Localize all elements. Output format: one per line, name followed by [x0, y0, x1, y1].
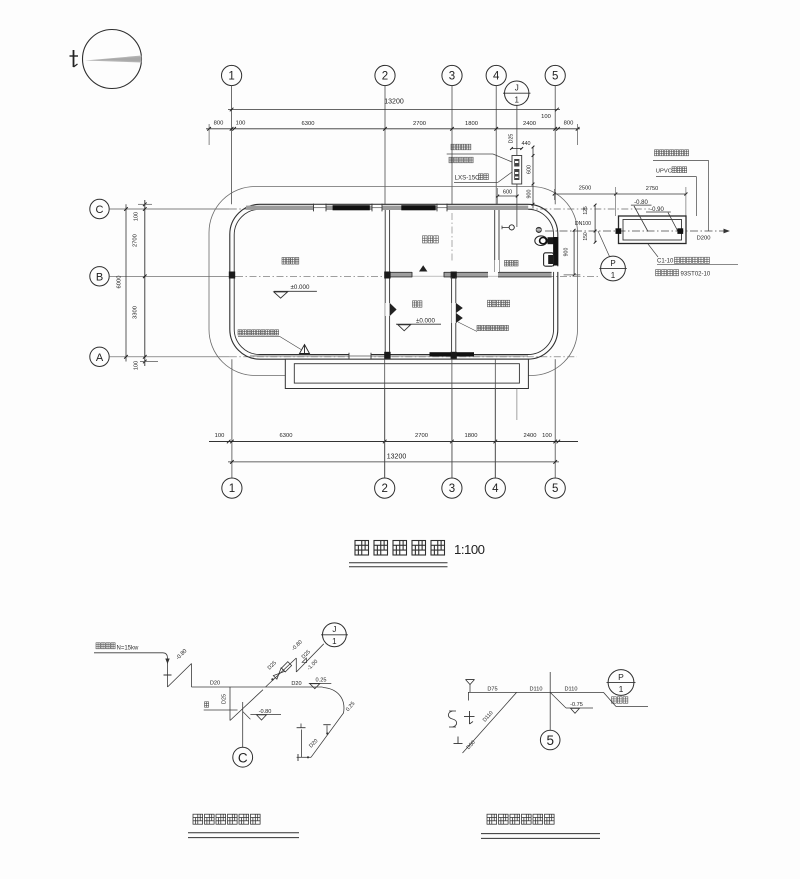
- svg-text:13200: 13200: [387, 453, 407, 460]
- svg-text:2500: 2500: [579, 186, 591, 192]
- partition wall grid2 vertical: [384, 210, 386, 354]
- toilet floor drain 2: [536, 227, 541, 232]
- drain: diagonal branch down-left: [463, 692, 517, 753]
- supply: main horizontal pipe: [192, 686, 323, 688]
- svg-text:-0.80: -0.80: [259, 709, 272, 715]
- wash basin: [544, 253, 554, 266]
- symbol 5 circle drain: [540, 730, 560, 750]
- svg-text:C: C: [96, 204, 104, 216]
- svg-text:5: 5: [546, 733, 554, 748]
- svg-text:4: 4: [492, 483, 499, 495]
- svg-text:100: 100: [134, 361, 140, 370]
- drain: main horizontal line: [468, 691, 604, 693]
- svg-text:D25: D25: [509, 134, 515, 144]
- building inner wall face: [234, 209, 553, 354]
- door leaves grid3: [456, 303, 463, 313]
- dimension row 13200 top: [228, 109, 560, 111]
- door leaf room1 top: [419, 265, 427, 271]
- svg-text:5: 5: [552, 483, 558, 495]
- drain pipe D200 centerline: [545, 230, 727, 232]
- svg-text:2400: 2400: [523, 121, 536, 127]
- outer site boundary rounded outline: [209, 187, 578, 376]
- svg-text:C: C: [238, 750, 248, 765]
- svg-text:1: 1: [229, 483, 235, 495]
- drain: lower tick: [457, 737, 459, 744]
- svg-text:J: J: [332, 625, 336, 634]
- svg-text:2700: 2700: [413, 121, 426, 127]
- north arrow symbol: [83, 30, 142, 89]
- svg-text:100: 100: [541, 114, 551, 120]
- room label transformer room: [282, 258, 299, 265]
- svg-text:UPVC: UPVC: [656, 169, 672, 175]
- bottom wall gray line: [250, 355, 528, 357]
- drain: outfall label: [612, 697, 628, 703]
- dim 2500: [554, 193, 615, 195]
- svg-text:D110: D110: [530, 687, 543, 693]
- supply: riser diagonal: [168, 664, 192, 688]
- svg-text:D20: D20: [210, 681, 220, 687]
- toilet floor drain 1: [509, 225, 514, 230]
- sump box inner: [623, 220, 682, 241]
- partition wall grid4 vertical (toilet): [494, 210, 496, 272]
- dim 900 vertical: [573, 230, 575, 275]
- grid verticals through pit: [384, 359, 386, 478]
- pit inner rectangle: [294, 364, 519, 383]
- drain: S-trap symbol: [448, 711, 456, 727]
- dim column right of meter: [532, 147, 534, 208]
- svg-text:100: 100: [134, 212, 140, 221]
- grid line B: [110, 275, 236, 277]
- drain: center stack vertical: [549, 672, 551, 730]
- title drainage diagram: [487, 814, 554, 824]
- dimension row 13200 bottom: [228, 461, 559, 463]
- svg-text:A: A: [96, 352, 104, 364]
- svg-text:93ST02-10: 93ST02-10: [681, 271, 711, 277]
- svg-text:P: P: [618, 672, 624, 682]
- svg-text:125: 125: [583, 206, 589, 215]
- supply: branch to C: [229, 687, 231, 721]
- middle wall horizontal: [390, 272, 552, 277]
- svg-text:1: 1: [611, 271, 616, 280]
- top wall gray band: [246, 206, 528, 210]
- svg-text:1: 1: [514, 96, 519, 105]
- room label hall: [413, 301, 422, 307]
- room label duty room: [423, 236, 439, 243]
- svg-text:13200: 13200: [384, 99, 404, 106]
- left small dims of sump: [594, 205, 596, 242]
- symbol J/1 circle: [505, 81, 529, 105]
- black wall segment right: [553, 237, 558, 266]
- svg-text:D75: D75: [487, 687, 497, 693]
- grid circles bottom 1-5: [222, 478, 242, 498]
- svg-text:150: 150: [583, 232, 589, 241]
- svg-text:LXS-15C: LXS-15C: [455, 174, 481, 181]
- svg-text:±0.000: ±0.000: [291, 284, 310, 291]
- svg-text:6300: 6300: [302, 121, 315, 127]
- svg-text:N=15kw: N=15kw: [117, 646, 140, 652]
- symbol P/1 circle drain: [608, 670, 634, 696]
- interior grid3 centerline in room: [451, 213, 453, 261]
- svg-text:440: 440: [522, 141, 531, 147]
- svg-text:100: 100: [542, 433, 552, 439]
- svg-text:800: 800: [214, 121, 224, 127]
- supply: inlet leader: [94, 652, 163, 654]
- svg-text:1: 1: [228, 71, 234, 83]
- wall pier blobs: [229, 272, 235, 279]
- dimension row segments top: [206, 128, 580, 130]
- water meter box: [512, 156, 522, 185]
- sump box outer: [619, 216, 687, 244]
- grid circles left A B C: [90, 199, 109, 218]
- svg-text:J: J: [515, 84, 519, 93]
- note text bottom left with flag: [238, 330, 279, 335]
- svg-text:2750: 2750: [646, 186, 658, 192]
- symbol P/1 circle plan: [601, 256, 626, 281]
- dimension column 6000 left: [125, 204, 127, 361]
- partition wall grid3 vertical: [451, 277, 453, 353]
- title first floor plan: [355, 541, 445, 556]
- title supply diagram: [193, 814, 260, 824]
- svg-text:±0.000: ±0.000: [416, 317, 435, 324]
- pit outer rectangle: [285, 359, 528, 388]
- supply pipe vertical from J: [516, 106, 518, 156]
- svg-text:100: 100: [215, 433, 225, 439]
- svg-text:3300: 3300: [133, 306, 139, 319]
- bottom wall black bar: [430, 352, 475, 356]
- svg-text:100: 100: [236, 120, 246, 126]
- svg-text:900: 900: [564, 248, 570, 257]
- svg-text:6300: 6300: [280, 433, 293, 439]
- svg-text:C1-10: C1-10: [657, 259, 674, 265]
- svg-text:2: 2: [382, 71, 388, 83]
- svg-text:D110: D110: [565, 687, 578, 693]
- top wall window gaps: [314, 205, 327, 211]
- svg-text:-0.75: -0.75: [570, 702, 583, 708]
- dimension row segments bottom: [209, 441, 578, 443]
- svg-text:600: 600: [503, 189, 512, 195]
- svg-text:600: 600: [526, 165, 532, 174]
- WC toilet bowl: [535, 236, 547, 246]
- supply: right descending branch: [311, 688, 344, 758]
- drain: outfall right: [604, 692, 617, 706]
- svg-text:2700: 2700: [415, 433, 428, 439]
- dim 600 above wall: [498, 195, 518, 197]
- svg-text:900: 900: [526, 190, 532, 199]
- bottom wall door gap: [349, 353, 371, 359]
- svg-text:1:100: 1:100: [454, 542, 485, 557]
- svg-text:D200: D200: [697, 236, 711, 242]
- room label toilet: [505, 260, 519, 266]
- symbol C circle: [233, 747, 253, 767]
- door leaf grid2: [390, 303, 397, 316]
- label rainwater discharge pipe: [655, 150, 689, 156]
- supply: elevation -0.80 center: [243, 712, 251, 720]
- valve on branch: [273, 668, 284, 679]
- building outer wall face: [230, 204, 558, 359]
- svg-text:1800: 1800: [465, 121, 478, 127]
- svg-text:1: 1: [332, 637, 337, 646]
- supply: branch to J/1: [266, 658, 297, 687]
- grid circles top 1-5: [222, 65, 242, 85]
- room label pump control room: [488, 300, 510, 307]
- grid line A: [110, 356, 230, 358]
- dimension column segments left: [144, 200, 146, 366]
- note text pump base: [477, 325, 508, 330]
- drain: cross symbol: [469, 711, 471, 724]
- svg-text:2700: 2700: [133, 234, 139, 247]
- svg-text:6000: 6000: [117, 276, 123, 289]
- svg-text:3: 3: [449, 483, 455, 495]
- supply: lower faucets: [297, 756, 311, 758]
- svg-text:1: 1: [619, 684, 624, 694]
- svg-text:800: 800: [564, 121, 574, 127]
- svg-text:2: 2: [381, 483, 387, 495]
- dim 440: [512, 148, 522, 150]
- svg-text:4: 4: [493, 71, 500, 83]
- sump funnel leaders: [634, 206, 648, 232]
- drain: floor drain funnel: [466, 679, 475, 681]
- dim 2750: [616, 193, 686, 195]
- svg-text:D20: D20: [291, 681, 301, 687]
- leader text lines water inlet: [451, 144, 471, 150]
- svg-text:2400: 2400: [524, 433, 537, 439]
- svg-text:5: 5: [552, 71, 558, 83]
- supply: pump label: [96, 643, 115, 649]
- svg-text:1800: 1800: [465, 433, 478, 439]
- svg-text:D25: D25: [222, 694, 228, 704]
- symbol J/1 circle supply: [323, 623, 347, 647]
- top wall black window bars: [333, 205, 370, 210]
- svg-text:0.25: 0.25: [316, 677, 327, 683]
- svg-text:3: 3: [449, 71, 455, 83]
- svg-text:B: B: [96, 271, 103, 283]
- svg-text:P: P: [610, 259, 615, 268]
- svg-text:DN100: DN100: [575, 221, 591, 227]
- grid line C: [109, 208, 230, 210]
- drain: elevation -0.75: [550, 692, 566, 708]
